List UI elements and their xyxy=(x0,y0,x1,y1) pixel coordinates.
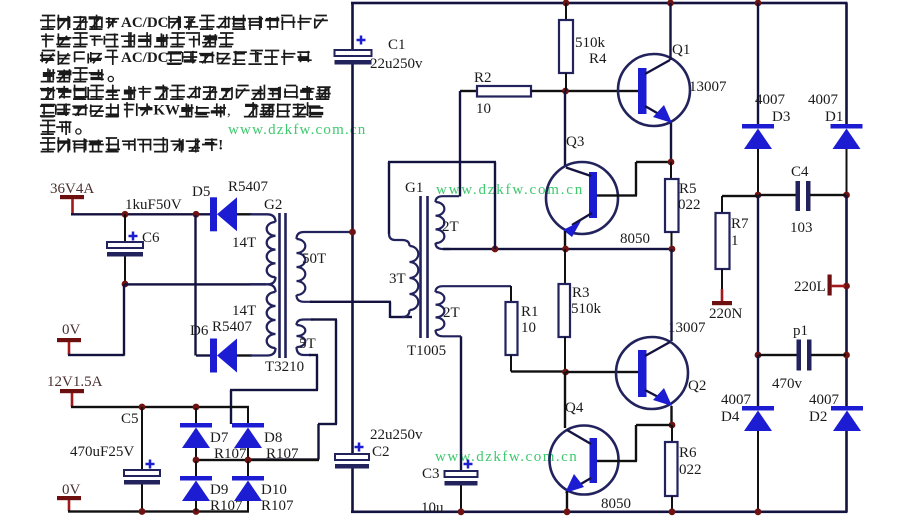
svg-text:!: ! xyxy=(218,138,223,154)
svg-text:D7: D7 xyxy=(210,430,229,446)
svg-text:470uF25V: 470uF25V xyxy=(70,444,134,460)
label R3 xyxy=(572,285,590,301)
label 12V1.5A xyxy=(47,374,103,390)
wire bridge mid xyxy=(196,459,319,461)
label 022 (R5) xyxy=(678,197,701,213)
svg-text:22u250v: 22u250v xyxy=(370,56,423,72)
label D9 xyxy=(210,482,228,498)
node D7 cathode xyxy=(193,404,200,411)
svg-text:D10: D10 xyxy=(261,482,287,498)
label 4007 (D2) xyxy=(809,392,840,408)
svg-text:KW: KW xyxy=(153,103,180,119)
label R2 xyxy=(474,70,492,86)
svg-text:D6: D6 xyxy=(190,323,209,339)
diode D5 xyxy=(210,197,237,231)
capacitor C5 xyxy=(124,407,160,511)
svg-text:R1: R1 xyxy=(521,304,539,320)
terminal 36V4A xyxy=(60,195,84,214)
label 220L xyxy=(794,279,826,295)
svg-text:G2: G2 xyxy=(264,197,282,213)
transformer G1 winding 2T lower xyxy=(436,286,512,336)
watermark www.dzkfw.com.cn (top-left) xyxy=(228,122,366,138)
label R5407 (D6) xyxy=(212,319,253,335)
svg-text:C1: C1 xyxy=(388,37,406,53)
svg-text:13007: 13007 xyxy=(689,79,727,95)
terminal 0V lower xyxy=(57,496,81,511)
diode D4 xyxy=(742,355,774,512)
diode D9 xyxy=(180,461,212,511)
svg-text:5T: 5T xyxy=(299,336,316,352)
label 4007 (D4) xyxy=(721,392,752,408)
diode D3 xyxy=(742,124,774,195)
svg-text:R107: R107 xyxy=(261,498,294,514)
label 13007 (Q1) xyxy=(689,79,727,95)
resistor R2 xyxy=(460,86,638,97)
wire D3-D4 rail xyxy=(757,195,759,355)
node R4-R2-Q1 base xyxy=(562,88,569,95)
label 8050 (Q3) xyxy=(620,231,650,247)
node Q4 emitter bottom xyxy=(564,508,571,515)
label 022 (R6) xyxy=(679,462,702,478)
label 10 (R2) xyxy=(476,101,491,117)
transformer G1 core xyxy=(419,196,429,338)
svg-text:T3210: T3210 xyxy=(265,359,304,375)
svg-text:0V: 0V xyxy=(62,322,81,338)
wire D3 drop xyxy=(757,3,759,124)
label C2 xyxy=(372,444,390,460)
diode D6 xyxy=(210,339,237,373)
node shelf drop xyxy=(492,162,499,252)
node 220L xyxy=(843,283,850,290)
label Q2 xyxy=(688,378,706,394)
label 1kuF50V xyxy=(125,197,182,213)
svg-text:AC/DC: AC/DC xyxy=(121,50,169,66)
svg-text:C3: C3 xyxy=(422,466,440,482)
transformer G1 winding 3T xyxy=(389,234,418,318)
label R7 xyxy=(731,216,749,232)
svg-text:14T: 14T xyxy=(232,303,256,319)
transistor Q4 xyxy=(550,426,619,495)
wire Q2 base xyxy=(566,371,638,373)
svg-text:D3: D3 xyxy=(772,109,790,125)
svg-text:4007: 4007 xyxy=(721,392,752,408)
svg-text:10u: 10u xyxy=(421,500,444,516)
svg-text:D4: D4 xyxy=(721,409,740,425)
diode D8 xyxy=(232,408,264,459)
label 5T xyxy=(299,336,316,352)
wire node to D6 cathode xyxy=(196,354,210,356)
node D5 anode xyxy=(193,211,200,218)
terminal 220L xyxy=(828,275,846,296)
transformer G2 winding 5T xyxy=(297,320,314,356)
wire R2 left drop xyxy=(459,91,461,197)
svg-text:Q2: Q2 xyxy=(688,378,706,394)
svg-text:14T: 14T xyxy=(232,235,256,251)
svg-text:4007: 4007 xyxy=(808,92,839,108)
svg-text:022: 022 xyxy=(678,197,701,213)
label 0V (12V return) xyxy=(62,482,81,498)
node D3 top xyxy=(755,0,762,6)
resistor R7 xyxy=(716,195,759,289)
resistor R6 xyxy=(665,425,678,512)
node R3-R1-Q2 base xyxy=(562,369,569,376)
wire D5 cathode junction down to D6 xyxy=(194,215,196,356)
svg-text:,: , xyxy=(227,103,231,119)
node 50T top on rail xyxy=(349,229,356,236)
transformer G2 winding 14T lower xyxy=(250,284,276,355)
svg-text:22u250v: 22u250v xyxy=(370,427,423,443)
svg-text:D2: D2 xyxy=(809,409,827,425)
svg-text:36V4A: 36V4A xyxy=(50,181,94,197)
diode D1 xyxy=(831,124,863,195)
capacitor p1 xyxy=(759,340,846,371)
label R5407 (D5) xyxy=(228,179,269,195)
svg-text:T1005: T1005 xyxy=(407,343,446,359)
svg-text:R7: R7 xyxy=(731,216,749,232)
wire bottom 12V xyxy=(68,510,249,512)
resistor R4 xyxy=(559,3,573,91)
label 2T upper xyxy=(442,219,459,235)
label 103 (C4) xyxy=(790,220,813,236)
wire right rail mid xyxy=(845,195,848,406)
svg-text:510k: 510k xyxy=(575,35,606,51)
node D8-D10 xyxy=(245,457,252,464)
node Q1 emitter / R5 top xyxy=(668,159,675,166)
transistor Q3 xyxy=(546,162,618,237)
wire Q4 emitter down xyxy=(566,491,568,512)
svg-text:C6: C6 xyxy=(142,230,160,246)
svg-text:8050: 8050 xyxy=(620,231,650,247)
svg-text:1kuF50V: 1kuF50V xyxy=(125,197,182,213)
label 470v (p1) xyxy=(772,376,803,392)
node C4 left xyxy=(755,192,762,199)
svg-text:R5407: R5407 xyxy=(212,319,253,335)
label 14T lower xyxy=(232,303,256,319)
svg-text:C5: C5 xyxy=(121,411,139,427)
label 470uF25V xyxy=(70,444,134,460)
svg-text:8050: 8050 xyxy=(601,496,631,512)
label Q4 xyxy=(565,400,584,416)
svg-text:220L: 220L xyxy=(794,279,826,295)
wire drive row xyxy=(443,248,672,250)
svg-text:022: 022 xyxy=(679,462,702,478)
node C6 bottom xyxy=(122,281,129,288)
diode D10 xyxy=(232,461,264,511)
label D3 xyxy=(772,109,790,125)
svg-text:4007: 4007 xyxy=(755,92,786,108)
label R107 (D10) xyxy=(261,498,294,514)
svg-text:4007: 4007 xyxy=(809,392,840,408)
label D1 xyxy=(825,109,843,125)
svg-text:D5: D5 xyxy=(192,184,210,200)
resistor R1 xyxy=(506,286,566,373)
svg-text:0V: 0V xyxy=(62,482,81,498)
svg-text:50T: 50T xyxy=(302,251,326,267)
svg-text:220N: 220N xyxy=(709,306,743,322)
label D2 xyxy=(809,409,827,425)
svg-text:R6: R6 xyxy=(679,445,697,461)
wire C6 bottom to G2 mid xyxy=(125,283,266,285)
diode D2 xyxy=(831,406,863,512)
svg-text:R5407: R5407 xyxy=(228,179,269,195)
node C5 top xyxy=(139,404,146,411)
watermark www.dzkfw.com.cn (center) xyxy=(436,182,584,198)
label 4007 (D3) xyxy=(755,92,786,108)
label 510k (R3) xyxy=(571,301,602,317)
svg-text:1: 1 xyxy=(731,233,739,249)
wire Q3 emitter down xyxy=(564,231,566,249)
wire D5 anode to G2 xyxy=(237,213,252,215)
label 36V4A xyxy=(50,181,94,197)
svg-text:Q1: Q1 xyxy=(672,42,690,58)
label 8050 (Q4) xyxy=(601,496,631,512)
capacitor C3 xyxy=(445,336,478,512)
node R5 bottom / Q2 collector xyxy=(669,246,676,253)
transformer G2 core xyxy=(278,213,287,358)
node Q3 emitter row xyxy=(562,246,569,253)
svg-text:3T: 3T xyxy=(389,271,406,287)
wire Q2 collector up xyxy=(670,249,672,341)
wire 36V rail xyxy=(71,213,211,215)
svg-text:G1: G1 xyxy=(405,180,423,196)
label 13007 (Q2) xyxy=(668,320,706,336)
label R5 xyxy=(679,181,697,197)
svg-text:R2: R2 xyxy=(474,70,492,86)
capacitor C6 xyxy=(107,214,143,283)
node p1 right xyxy=(843,352,850,359)
transformer G1 winding 2T upper xyxy=(436,196,460,249)
wire Q2 emitter down xyxy=(670,406,672,425)
node p1 left xyxy=(755,352,762,359)
label D8 xyxy=(264,430,282,446)
wire 0V to C6 node xyxy=(68,284,125,356)
svg-text:Q4: Q4 xyxy=(565,400,584,416)
wire node to Q3 collector xyxy=(564,91,566,167)
svg-text:D8: D8 xyxy=(264,430,282,446)
node C6 top xyxy=(122,211,129,218)
svg-text:10: 10 xyxy=(521,320,536,336)
wire D6 anode to G2 xyxy=(237,354,252,356)
capacitor C1 xyxy=(335,36,372,65)
svg-text:R5: R5 xyxy=(679,181,697,197)
node D7-D9 xyxy=(193,457,200,464)
transformer G2 winding 14T upper xyxy=(250,214,276,284)
terminal 220N xyxy=(712,289,732,305)
label R107 (D7) xyxy=(214,446,247,462)
svg-text:13007: 13007 xyxy=(668,320,706,336)
wire bottom rail xyxy=(351,511,848,514)
node C3 bottom xyxy=(458,508,465,515)
label R107 (D9) xyxy=(210,498,243,514)
node R6 bottom xyxy=(669,508,676,515)
svg-text:D1: D1 xyxy=(825,109,843,125)
label C6 xyxy=(142,230,160,246)
label D5 xyxy=(192,184,210,200)
wire 5T top to bridge xyxy=(248,318,337,460)
label Q1 xyxy=(672,42,690,58)
svg-text:C4: C4 xyxy=(791,164,809,180)
wire left HV rail upper xyxy=(351,3,354,50)
wire Q3 base xyxy=(597,161,671,197)
label T1005 xyxy=(407,343,446,359)
label C1 xyxy=(388,37,406,53)
label G1 xyxy=(405,180,423,196)
label R107 (D8) xyxy=(266,446,299,462)
label 22u250v (C1) xyxy=(370,56,423,72)
label C4 xyxy=(791,164,809,180)
node Q1 collector top xyxy=(667,0,674,6)
wire Q4 base xyxy=(597,424,671,462)
node R4 top xyxy=(563,0,570,6)
node C5 bottom xyxy=(139,508,146,515)
svg-text:2T: 2T xyxy=(443,305,460,321)
label 10 (R1) xyxy=(521,320,536,336)
label G2 xyxy=(264,197,282,213)
label D7 xyxy=(210,430,229,446)
svg-text:R3: R3 xyxy=(572,285,590,301)
svg-text:103: 103 xyxy=(790,220,813,236)
label 50T xyxy=(302,251,326,267)
terminal 12V1.5A xyxy=(60,389,84,407)
label R4 xyxy=(589,51,607,67)
svg-text:2T: 2T xyxy=(442,219,459,235)
wire Q1 collector xyxy=(669,3,671,60)
capacitor C4 xyxy=(759,181,846,211)
svg-text:10: 10 xyxy=(476,101,491,117)
label C5 xyxy=(121,411,139,427)
svg-text:Q3: Q3 xyxy=(566,134,584,150)
wire 50T bottom to 3T bottom xyxy=(310,301,412,319)
label 14T upper xyxy=(232,235,256,251)
label 1 (R7) xyxy=(731,233,739,249)
label p1 xyxy=(793,323,808,339)
svg-text:470v: 470v xyxy=(772,376,803,392)
label D4 xyxy=(721,409,740,425)
svg-text:12V1.5A: 12V1.5A xyxy=(47,374,103,390)
wire 5T bottom to D8 xyxy=(230,354,318,424)
capacitor C2 xyxy=(335,443,369,469)
label R6 xyxy=(679,445,697,461)
watermark www.dzkfw.com.cn (bottom) xyxy=(435,449,578,465)
transistor Q2 xyxy=(616,337,688,409)
transformer G2 winding 50T xyxy=(297,232,353,302)
label 510k (R4) xyxy=(575,35,606,51)
label D6 xyxy=(190,323,209,339)
label Q3 xyxy=(566,134,584,150)
svg-text:p1: p1 xyxy=(793,323,808,339)
node D9 anode xyxy=(193,508,200,515)
label C3 xyxy=(422,466,440,482)
svg-text:510k: 510k xyxy=(571,301,602,317)
wire 12V rail xyxy=(71,406,249,408)
node Q2 emitter / R6 / Q4 base xyxy=(669,422,676,429)
svg-text:C2: C2 xyxy=(372,444,390,460)
wire R2 shelf xyxy=(388,161,496,234)
label R1 xyxy=(521,304,539,320)
label 10u (C3) xyxy=(421,500,444,516)
wire top rail xyxy=(351,2,848,5)
terminal 0V upper xyxy=(57,338,81,355)
label 0V (36V return) xyxy=(62,322,81,338)
label 22u250v (C2) xyxy=(370,427,423,443)
svg-text:AC/DC: AC/DC xyxy=(121,15,169,31)
wire left HV rail lower xyxy=(351,469,354,513)
diode D7 xyxy=(180,408,212,459)
label 2T lower xyxy=(443,305,460,321)
label 220N xyxy=(709,306,743,322)
node C4 right xyxy=(843,192,850,199)
svg-text:R4: R4 xyxy=(589,51,607,67)
label T3210 xyxy=(265,359,304,375)
label 4007 (D1) xyxy=(808,92,839,108)
node D4 bottom xyxy=(755,508,762,515)
wire right rail upper xyxy=(845,3,848,124)
label D10 xyxy=(261,482,287,498)
label 3T xyxy=(389,271,406,287)
svg-text:www.dzkfw.com.cn: www.dzkfw.com.cn xyxy=(228,122,366,138)
note: Chinese description text block xyxy=(41,15,330,154)
svg-text:D9: D9 xyxy=(210,482,228,498)
resistor R5 xyxy=(665,162,679,249)
svg-text:www.dzkfw.com.cn: www.dzkfw.com.cn xyxy=(435,449,578,465)
transistor Q1 xyxy=(618,54,690,126)
resistor R3 xyxy=(559,249,571,371)
wire Q4 collector up xyxy=(564,372,566,428)
wire left HV rail xyxy=(351,65,354,455)
wire Q1 emitter to R5 xyxy=(670,123,672,162)
